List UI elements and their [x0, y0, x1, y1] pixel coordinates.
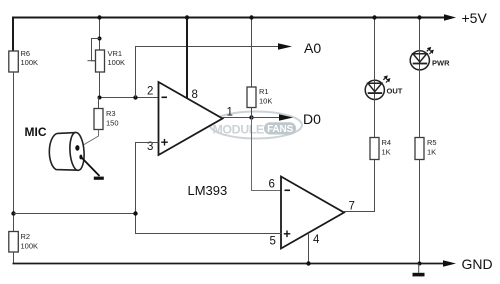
- svg-text:1K: 1K: [427, 148, 436, 157]
- svg-text:2: 2: [147, 85, 153, 97]
- resistor R2: [9, 232, 38, 253]
- LED PWR: [410, 18, 434, 138]
- svg-text:OUT: OUT: [387, 87, 403, 96]
- svg-text:MODULE: MODULE: [213, 123, 264, 137]
- svg-text:7: 7: [349, 201, 355, 213]
- watermark FANS badge: [264, 122, 296, 135]
- wire R5 bottom: [419, 160, 421, 264]
- svg-text:1: 1: [227, 107, 233, 119]
- wire R3 to microphone: [79, 130, 99, 148]
- node junction rail/R1: [249, 15, 253, 19]
- wire R3 top: [98, 98, 100, 109]
- node junction left/mid: [11, 211, 15, 215]
- pin 2 label: [147, 85, 167, 97]
- svg-text:R2: R2: [21, 232, 31, 241]
- svg-text:150: 150: [106, 119, 119, 128]
- wire VR1 wiper arm: [88, 39, 100, 61]
- microphone MIC body: [49, 132, 85, 171]
- wire R1 top: [251, 18, 253, 88]
- svg-text:R4: R4: [382, 138, 392, 147]
- resistor R6: [9, 49, 38, 72]
- node junction rail/VR1: [97, 15, 101, 19]
- node D0 label: [303, 111, 321, 127]
- wire +5V top rail: [13, 14, 456, 21]
- node A0 label: [304, 40, 321, 56]
- wire pin7 output: [344, 160, 375, 212]
- ground (rail): [413, 264, 425, 277]
- potentiometer VR1: [96, 49, 126, 72]
- pin 6 label: [269, 179, 291, 191]
- svg-text:FANS: FANS: [267, 124, 293, 135]
- resistor R1: [247, 87, 272, 108]
- wire D0 node to pin6: [252, 118, 282, 191]
- svg-text:GND: GND: [462, 256, 493, 272]
- watermark text MODULE: [213, 123, 264, 137]
- svg-text:5: 5: [270, 236, 276, 248]
- pin 4 label and wire: [309, 233, 321, 264]
- svg-text:LM393: LM393: [188, 183, 228, 198]
- watermark ellipse: [210, 112, 302, 139]
- op-amp U1A triangle: [159, 82, 223, 155]
- wire left vertical top (rail to R6): [12, 17, 14, 52]
- wire R1 bottom: [251, 108, 253, 118]
- node junction A0 tap: [133, 95, 137, 99]
- resistor R5: [415, 138, 437, 160]
- svg-text:100K: 100K: [108, 58, 126, 67]
- node junction pin4/GND: [306, 261, 310, 265]
- ground (microphone): [94, 177, 104, 180]
- svg-text:+5V: +5V: [462, 10, 488, 26]
- wire pin2 input: [100, 97, 159, 99]
- wire pin5 input: [136, 214, 282, 234]
- wire mid left horizontal: [14, 213, 136, 215]
- pin 1 label and wire: [222, 107, 252, 119]
- node junction rail/PWR: [417, 15, 421, 19]
- node GND label: [462, 256, 493, 272]
- LED OUT: [365, 18, 390, 138]
- node +5V label: [462, 10, 488, 26]
- wire MIC to ground: [82, 158, 100, 177]
- wire D0 arrow: [252, 114, 294, 121]
- svg-text:MIC: MIC: [25, 125, 47, 139]
- pin 3 label: [147, 139, 168, 153]
- node junction VR1 wiper: [98, 37, 102, 41]
- node junction R5/GND: [418, 262, 422, 266]
- svg-text:R3: R3: [106, 109, 116, 118]
- svg-text:R6: R6: [21, 49, 31, 58]
- svg-text:R1: R1: [259, 87, 269, 96]
- svg-text:D0: D0: [303, 111, 321, 127]
- svg-text:10K: 10K: [259, 97, 272, 106]
- node junction rail/OUT: [372, 15, 376, 19]
- node PWR label: [432, 59, 450, 68]
- wire VR1 bottom: [99, 72, 101, 98]
- wire pin3 input: [136, 143, 159, 214]
- node junction pin3/pin5: [133, 211, 137, 215]
- svg-text:VR1: VR1: [108, 49, 123, 58]
- wire A0 branch: [136, 43, 293, 97]
- svg-text:100K: 100K: [21, 242, 39, 251]
- svg-text:A0: A0: [304, 40, 321, 56]
- svg-text:R5: R5: [427, 138, 437, 147]
- svg-text:100K: 100K: [21, 58, 39, 67]
- pin 7 label: [349, 201, 355, 213]
- MIC terminal dots: [75, 145, 82, 159]
- svg-text:4: 4: [313, 234, 320, 246]
- pin 8 label and wire: [187, 18, 198, 102]
- svg-text:6: 6: [269, 179, 275, 191]
- resistor R3: [94, 109, 119, 130]
- svg-text:1K: 1K: [382, 148, 391, 157]
- svg-text:PWR: PWR: [432, 59, 450, 68]
- wire GND bottom rail: [13, 260, 457, 267]
- node junction D0: [249, 115, 253, 119]
- wire R2 bottom to GND rail: [13, 252, 15, 264]
- node OUT label: [387, 87, 403, 96]
- node LM393 label: [188, 183, 228, 198]
- node junction rail/pin8: [185, 15, 189, 19]
- resistor R4: [370, 138, 391, 160]
- op-amp U1B triangle: [281, 177, 344, 249]
- wire VR1 top drop: [99, 18, 101, 51]
- svg-text:8: 8: [192, 89, 198, 101]
- node junction VR1/R3: [98, 96, 102, 100]
- node MIC label: [25, 125, 47, 139]
- wire left vertical (R6 to R2): [13, 72, 15, 232]
- pin 5 label: [270, 231, 291, 248]
